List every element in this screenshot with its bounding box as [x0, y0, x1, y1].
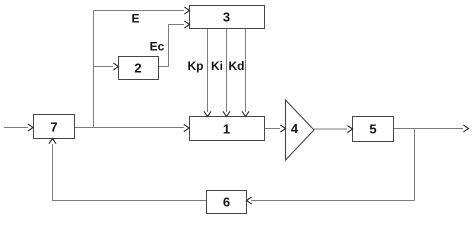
block 3: [190, 6, 265, 29]
svg-text:Kd: Kd: [229, 59, 245, 73]
svg-text:Kp: Kp: [188, 59, 204, 73]
svg-text:2: 2: [134, 61, 141, 76]
wire input to block 7: [4, 127, 28, 129]
wire Ki block 3 to block 1: [226, 29, 228, 113]
block 5: [353, 117, 394, 142]
wire block 2 to elbow: [159, 25, 185, 67]
arrowhead Kp into block 1: [204, 112, 211, 117]
wire block 6 to block 7: [53, 144, 207, 201]
arrowhead Kd into block 1: [242, 112, 249, 117]
arrowhead into block 7: [28, 124, 33, 131]
wire branch up from node A: [93, 11, 95, 128]
block 1: [190, 117, 265, 141]
arrowhead E into block 3: [185, 7, 190, 14]
svg-text:Ki: Ki: [211, 59, 223, 73]
arrowhead into block 2: [114, 63, 119, 70]
wire op-amp 4 to block 5: [314, 128, 347, 130]
svg-text:Ec: Ec: [150, 40, 165, 54]
arrowhead into block 7 from below: [49, 139, 56, 144]
block 2: [119, 57, 159, 80]
svg-text:3: 3: [223, 10, 230, 25]
svg-text:5: 5: [369, 122, 376, 137]
op-amp U4 triangle: [286, 100, 315, 160]
svg-text:6: 6: [223, 195, 230, 210]
wire E path top to block 3: [94, 10, 185, 12]
svg-text:7: 7: [50, 120, 57, 135]
arrowhead Ki into block 1: [223, 112, 230, 117]
wire block 1 to op-amp 4: [265, 128, 281, 130]
svg-text:1: 1: [223, 122, 230, 137]
wire feedback to block 6: [251, 200, 415, 202]
svg-text:4: 4: [291, 121, 299, 136]
wire Kd block 3 to block 1: [245, 29, 247, 113]
arrowhead output: [464, 125, 469, 132]
arrowhead into block 1: [184, 125, 189, 132]
wire Kp block 3 to block 1: [207, 29, 209, 113]
wire node A to block 2: [94, 66, 114, 68]
arrowhead into op-amp 4: [281, 125, 286, 132]
arrowhead Ec into block 3: [185, 21, 190, 28]
wire branch down at junction: [414, 129, 416, 201]
block 6: [207, 191, 247, 214]
wire block 5 to output: [394, 128, 464, 130]
arrowhead into block 5: [348, 126, 353, 133]
block 7: [34, 115, 75, 139]
wire block 7 to block 1: [75, 127, 185, 129]
arrowhead into block 6: [247, 197, 252, 204]
svg-text:E: E: [131, 12, 139, 26]
